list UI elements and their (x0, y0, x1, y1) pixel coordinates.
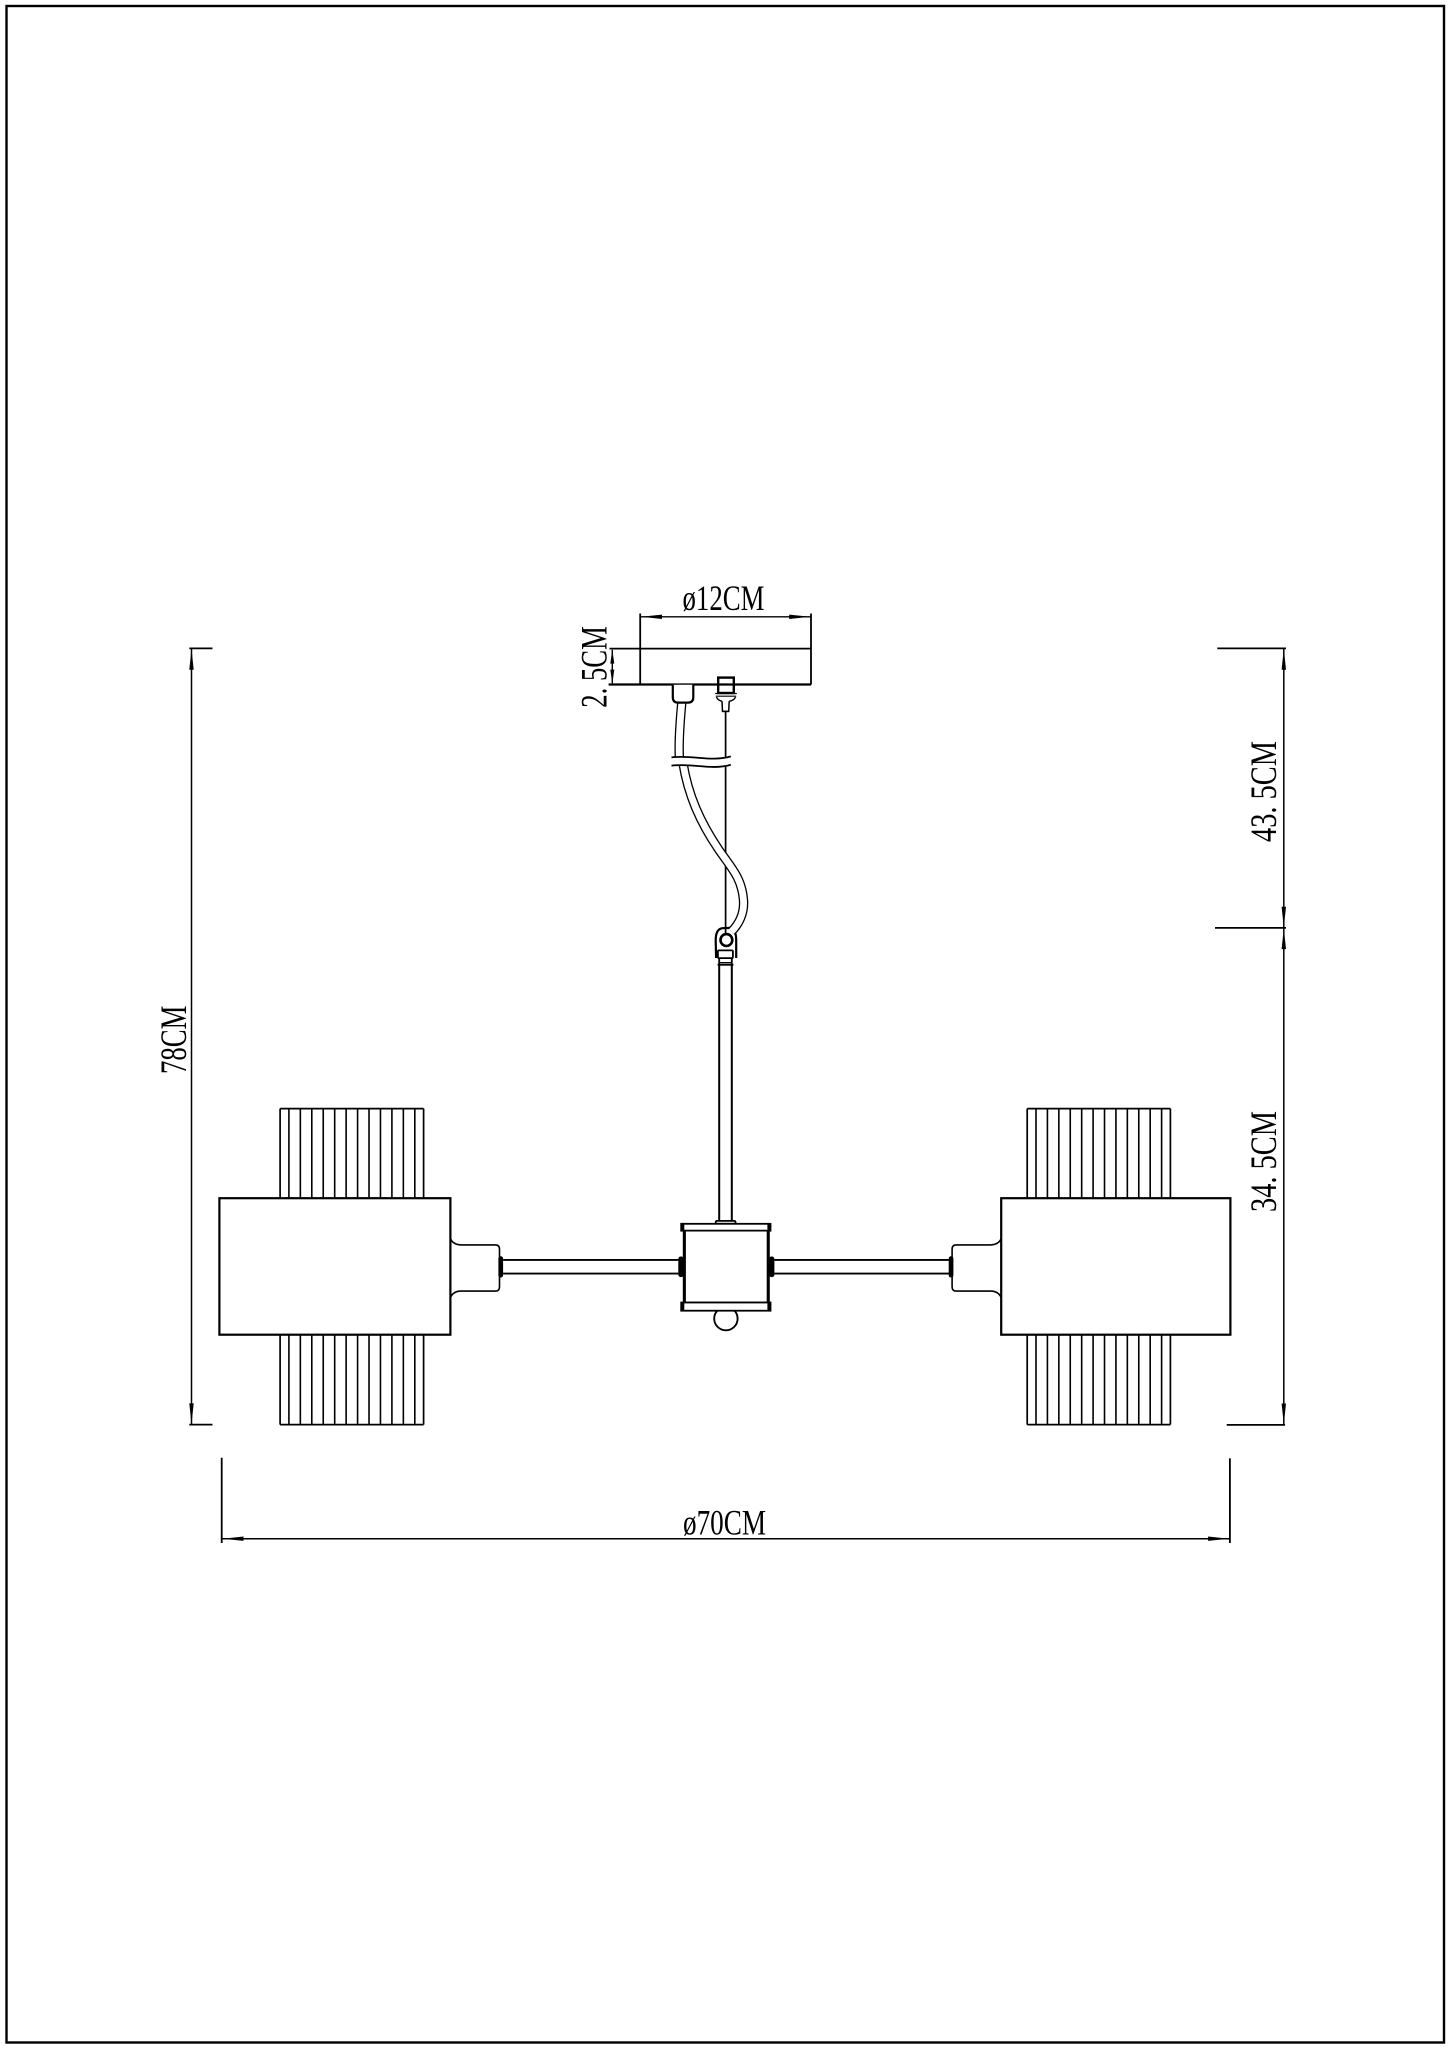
svg-text:78CM: 78CM (154, 1006, 195, 1074)
svg-text:43. 5CM: 43. 5CM (1244, 741, 1285, 842)
svg-text:2. 5CM: 2. 5CM (575, 626, 616, 708)
svg-text:ø12CM: ø12CM (683, 578, 765, 618)
svg-text:ø70CM: ø70CM (683, 1503, 766, 1543)
svg-text:34. 5CM: 34. 5CM (1244, 1111, 1285, 1212)
